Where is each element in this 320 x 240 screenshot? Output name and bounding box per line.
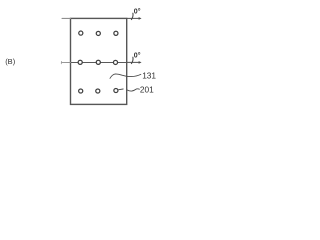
leader line to 131 [110,74,141,78]
hole r3c2 [96,89,100,93]
middle fiber line [71,62,127,64]
hole r1c3 [114,31,118,35]
hole r1c1 [79,31,83,35]
svg-text:131: 131 [142,70,156,80]
svg-text:(B): (B) [5,57,16,66]
top edge left overhang [62,17,71,19]
plate outline rectangle [71,18,127,104]
middle 0-degree arrow line [127,61,140,63]
svg-text:0°: 0° [134,52,141,60]
svg-text:0°: 0° [134,8,141,16]
hole r2c2 [96,60,100,64]
leader squiggle to 201 [127,89,139,91]
middle line left overhang [62,62,71,64]
hole r2c1 [78,60,82,64]
hole 201 r3c3 [114,88,118,92]
hole r1c2 [96,31,100,35]
svg-text:201: 201 [140,85,154,95]
hole r2c3 [113,60,117,64]
hole r3c1 [79,89,83,93]
top 0-degree arrow line [127,17,140,19]
hole circles 3x3 grid [78,31,118,93]
leader dash from circle to 201 [119,88,124,91]
top arrowhead [139,17,142,20]
middle line left end tick [60,61,62,63]
top angle arc mark [131,13,133,19]
middle arrowhead [139,61,142,64]
middle angle arc mark [131,57,133,63]
